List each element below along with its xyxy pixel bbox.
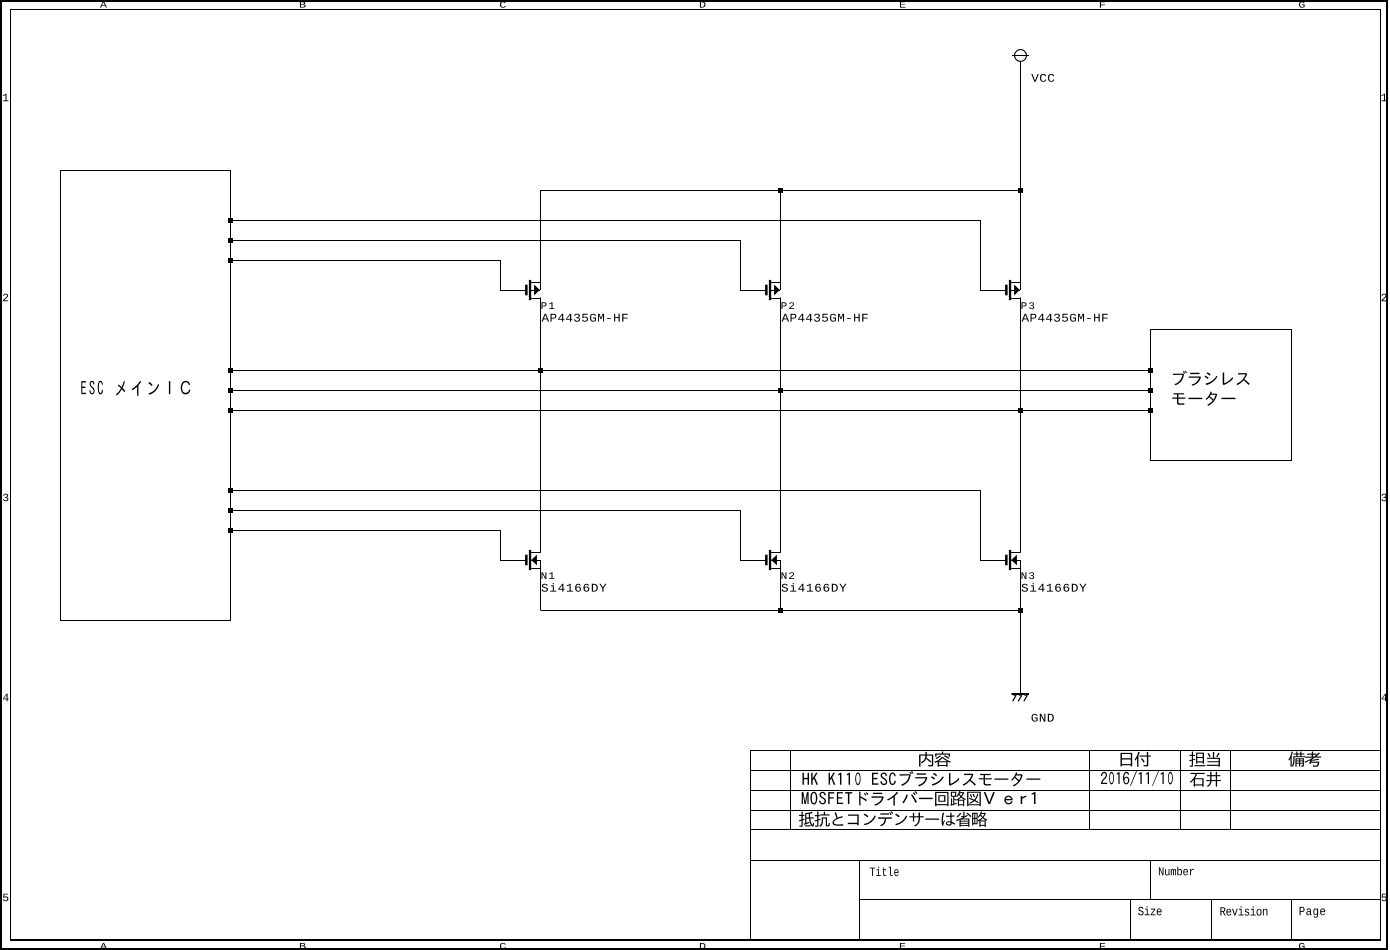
wire P2 source to N2 drain bbox=[780, 297, 782, 552]
label VCC bbox=[1031, 74, 1054, 82]
pin motor phase pins bbox=[1148, 368, 1153, 413]
label GND bbox=[1032, 714, 1054, 722]
wire P3 source to N3 drain bbox=[1020, 297, 1022, 552]
wire GND rail bbox=[541, 610, 1021, 612]
wire N1 source to GND rail bbox=[540, 567, 542, 610]
wire P3 drain from rail bbox=[1020, 190, 1022, 283]
wire ESC pin8 to N2 gate bbox=[232, 511, 741, 561]
transistor P3 (p-MOSFET) bbox=[980, 280, 1021, 300]
wire VCC vertical bbox=[1020, 61, 1022, 190]
wire phase V to motor bbox=[231, 390, 1150, 392]
wire P1 source to N1 drain bbox=[540, 297, 542, 552]
label Number bbox=[1159, 867, 1194, 876]
label Size bbox=[1138, 906, 1162, 915]
label ブラシレス bbox=[1173, 371, 1250, 386]
label N2 bbox=[782, 572, 795, 579]
junction phase V / P2-N2 bbox=[778, 388, 783, 393]
wire GND rail to ground bbox=[1020, 610, 1022, 693]
label Page bbox=[1300, 907, 1326, 918]
label P1 bbox=[542, 302, 555, 309]
title block bbox=[750, 750, 1381, 941]
label ESC メインＩＣ bbox=[81, 381, 190, 396]
wire ESC pin9 to N1 gate bbox=[232, 531, 501, 561]
component motor: ブラシレスモーター box bbox=[1151, 330, 1292, 461]
wire N3 source to GND rail bbox=[1020, 567, 1022, 610]
junction phase U / P1-N1 bbox=[538, 368, 543, 373]
junction GND rail / N3 bbox=[1018, 608, 1023, 613]
label 日付 header bbox=[1121, 752, 1151, 767]
transistor N2 (n-MOSFET) bbox=[740, 550, 781, 570]
label N3 bbox=[1022, 572, 1035, 579]
value AP4435GM-HF (P3) bbox=[1022, 314, 1108, 322]
wire ESC pin3 to P1 gate bbox=[232, 261, 501, 291]
label 内容 header bbox=[919, 752, 951, 767]
label P2 bbox=[782, 302, 795, 309]
wire ESC pin1 to P3 gate bbox=[232, 221, 981, 291]
value Si4166DY (N2) bbox=[782, 583, 847, 592]
junction phase W / P3-N3 bbox=[1018, 408, 1023, 413]
value Si4166DY (N1) bbox=[542, 583, 607, 592]
text row3 抵抗とコンデンサーは省略 bbox=[799, 811, 987, 827]
ground GND symbol bbox=[1012, 694, 1030, 701]
junction top rail / P2 drain bbox=[778, 188, 783, 193]
text row1 HK K110 ESCブラシレスモーター bbox=[803, 771, 1041, 786]
wire P1 drain from rail bbox=[540, 190, 542, 283]
label Revision bbox=[1220, 906, 1267, 915]
text row1 石井 bbox=[1190, 772, 1221, 787]
label モーター bbox=[1172, 392, 1235, 406]
transistor P2 (p-MOSFET) bbox=[740, 280, 781, 300]
transistor N1 (n-MOSFET) bbox=[500, 550, 541, 570]
wire phase W to motor bbox=[231, 410, 1150, 412]
power VCC bbox=[1012, 50, 1029, 62]
label P3 bbox=[1022, 302, 1035, 309]
wire P2 drain from rail bbox=[780, 190, 782, 283]
label Title bbox=[870, 867, 899, 876]
value AP4435GM-HF (P1) bbox=[542, 314, 628, 322]
wire N2 source to GND rail bbox=[780, 567, 782, 610]
text row1 date 2016/11/10 bbox=[1101, 771, 1173, 786]
value Si4166DY (N3) bbox=[1022, 583, 1087, 592]
text row2 MOSFETドライバー回路図Ｖｅｒ１ bbox=[802, 791, 1036, 806]
component U1: ESC main IC box bbox=[61, 171, 231, 621]
wire ESC pin2 to P2 gate bbox=[232, 241, 741, 291]
label 備考 header bbox=[1288, 752, 1321, 767]
wire ESC pin7 to N3 gate bbox=[232, 491, 981, 561]
pin ESC IC gate/phase pins bbox=[228, 218, 233, 533]
value AP4435GM-HF (P2) bbox=[782, 314, 868, 322]
junction GND rail / N2 bbox=[778, 608, 783, 613]
transistor P1 (p-MOSFET) bbox=[500, 280, 541, 300]
wire phase U to motor bbox=[231, 370, 1150, 372]
label N1 bbox=[542, 572, 555, 579]
junction top rail / P3 drain bbox=[1018, 188, 1023, 193]
transistor N3 (n-MOSFET) bbox=[980, 550, 1021, 570]
label 担当 header bbox=[1189, 752, 1220, 767]
wire VCC top rail bbox=[541, 190, 1021, 192]
